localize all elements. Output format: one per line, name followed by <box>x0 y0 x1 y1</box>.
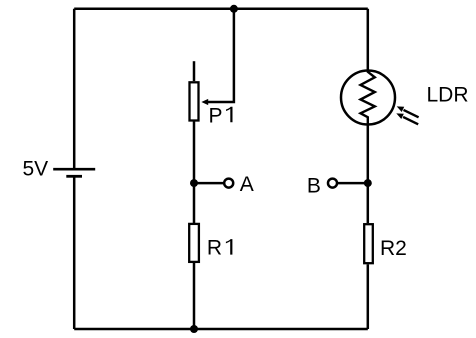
svg-text:LDR: LDR <box>427 83 469 106</box>
svg-text:A: A <box>240 173 254 196</box>
svg-text:P: P <box>209 104 223 127</box>
svg-text:R2: R2 <box>380 237 407 260</box>
svg-text:R: R <box>207 237 222 260</box>
svg-text:B: B <box>307 174 321 197</box>
svg-text:5V: 5V <box>23 157 49 180</box>
